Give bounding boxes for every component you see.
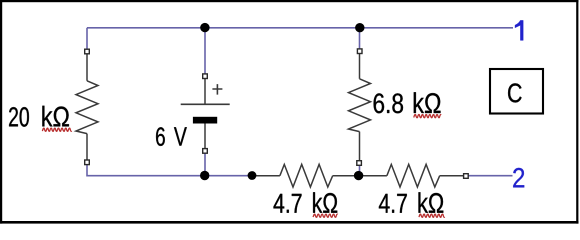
- label R4 value 6.8: [374, 93, 403, 113]
- label battery unit V: [174, 127, 187, 145]
- frame border bottom: [0, 221, 579, 224]
- resistor R2 4.7 kOhm lead right: [333, 175, 359, 177]
- battery V1 terminal square bottom: [203, 149, 208, 154]
- wire 6.8k bottom drop: [359, 166, 361, 176]
- resistor R2 4.7 kOhm lead left: [252, 175, 280, 177]
- junction dot bottom battery: [200, 171, 209, 180]
- junction dot top 6.8k: [355, 23, 364, 32]
- frame border top: [0, 0, 579, 2]
- resistor R1 20 kOhm lead top: [86, 54, 88, 81]
- frame border right: [576, 0, 578, 224]
- wire left branch drop: [86, 28, 88, 50]
- resistor R4 6.8 kOhm lead bottom: [359, 132, 361, 161]
- label battery value 6: [156, 127, 165, 146]
- junction dot top battery: [200, 23, 209, 32]
- resistor R4 6.8 kOhm lead top: [359, 54, 361, 79]
- spellcheck squiggle under R4 unit: [414, 114, 441, 117]
- resistor R2 4.7 kOhm zigzag body: [280, 164, 333, 187]
- label R3 unit kOhm: [419, 192, 444, 212]
- battery V1 terminal square top: [203, 74, 208, 79]
- annotation letter C: [508, 83, 521, 102]
- node label 1: [515, 20, 523, 40]
- resistor R1 terminal square top: [85, 49, 90, 54]
- label R4 unit kOhm: [414, 92, 441, 113]
- label R3 value 4.7: [379, 194, 407, 213]
- resistor R4 terminal square bottom: [357, 161, 362, 166]
- wire bottom rail right segment to node 2: [466, 175, 513, 177]
- wire battery bottom drop: [204, 153, 206, 175]
- battery V1 plus sign: [212, 84, 222, 95]
- battery V1 positive plate thin: [181, 103, 230, 105]
- label R2 unit kOhm: [313, 192, 337, 212]
- wire bottom rail left segment: [87, 165, 252, 176]
- label R1 value 20: [9, 107, 29, 127]
- wire battery top drop: [204, 28, 206, 74]
- resistor R3 terminal square right: [464, 174, 469, 179]
- battery V1 lead bottom: [204, 124, 206, 149]
- spellcheck squiggle under R1 unit: [42, 128, 71, 131]
- resistor R1 terminal square bottom: [85, 160, 90, 165]
- resistor R1 20 kOhm zigzag body: [76, 81, 98, 134]
- spellcheck squiggle under R2 unit: [313, 214, 338, 217]
- junction dot bottom mid: [248, 171, 257, 180]
- resistor R4 terminal square top: [357, 49, 362, 54]
- wire 6.8k top drop: [359, 28, 361, 49]
- wire top rail node 1: [87, 27, 513, 29]
- battery V1 negative plate thick: [193, 117, 217, 124]
- spellcheck squiggle under R3 unit: [419, 214, 445, 217]
- frame border left: [0, 0, 2, 224]
- battery V1 lead top: [204, 79, 206, 104]
- label R1 unit kOhm: [42, 106, 69, 127]
- label R2 value 4.7: [274, 194, 302, 213]
- resistor R3 4.7 kOhm zigzag body: [387, 164, 440, 187]
- resistor R3 4.7 kOhm lead right: [440, 175, 463, 177]
- resistor R1 20 kOhm lead bottom: [86, 134, 88, 161]
- resistor R4 6.8 kOhm zigzag body: [349, 79, 371, 132]
- node label 2: [513, 168, 524, 188]
- resistor R3 4.7 kOhm lead left: [359, 175, 387, 177]
- junction dot bottom 6.8k: [354, 171, 363, 180]
- annotation box C: [490, 69, 543, 114]
